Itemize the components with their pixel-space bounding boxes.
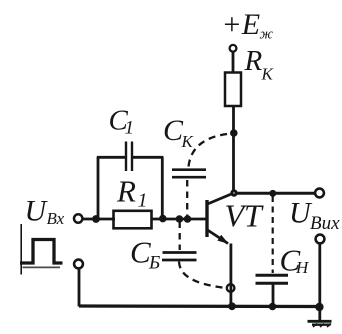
svg-text:Н: Н: [295, 258, 310, 277]
svg-text:R: R: [116, 174, 136, 209]
svg-text:Б: Б: [148, 253, 160, 274]
svg-text:VT: VT: [225, 198, 265, 234]
svg-text:U: U: [25, 195, 49, 228]
svg-text:1: 1: [125, 118, 135, 139]
svg-text:К: К: [181, 132, 195, 151]
svg-text:ж: ж: [260, 27, 274, 43]
svg-text:C: C: [130, 235, 151, 270]
svg-text:+E: +E: [222, 8, 261, 41]
svg-text:1: 1: [138, 190, 148, 212]
svg-text:Вих: Вих: [310, 213, 340, 234]
svg-text:Вх: Вх: [47, 209, 65, 228]
svg-text:R: R: [244, 45, 263, 77]
svg-text:К: К: [261, 65, 275, 84]
